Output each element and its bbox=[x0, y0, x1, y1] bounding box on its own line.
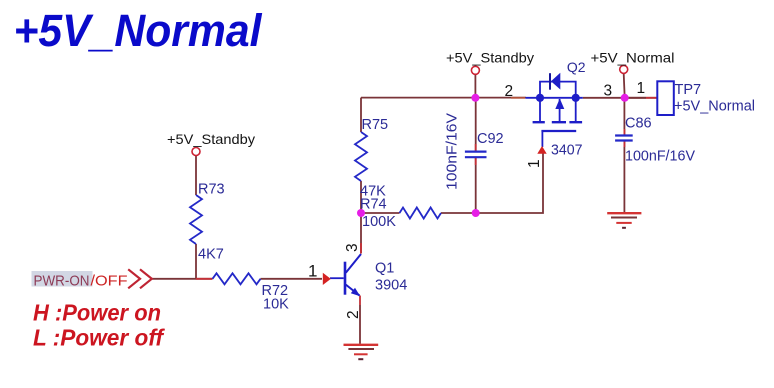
ground C86 bbox=[607, 213, 641, 228]
body diode cathode bar bbox=[549, 73, 551, 90]
svg-text:R74: R74 bbox=[360, 197, 387, 213]
channel bar left bbox=[533, 121, 545, 123]
wire: R75 bottom to node R74 bbox=[360, 181, 362, 213]
capacitor C86 bbox=[615, 116, 695, 165]
svg-text:PWR-ON: PWR-ON bbox=[34, 273, 90, 290]
base pin bbox=[330, 277, 344, 279]
body diode loop bbox=[540, 82, 576, 98]
gate lead bbox=[541, 131, 543, 147]
svg-text:+5V_Standby: +5V_Standby bbox=[167, 131, 255, 147]
capacitor C92 bbox=[444, 113, 504, 190]
svg-text:+5V_Standby: +5V_Standby bbox=[446, 50, 534, 66]
wire: C92 bottom plate to node bbox=[475, 157, 477, 213]
svg-text:3: 3 bbox=[344, 243, 361, 252]
wire: bottom net PWR-ON to R72 bbox=[152, 278, 213, 280]
power +5V_Standby left bbox=[167, 131, 255, 156]
ground Q1 bbox=[344, 345, 379, 359]
resistor R73 bbox=[190, 182, 225, 263]
pin arrow 1 (Q1 base input) bbox=[323, 273, 331, 285]
port chevron bbox=[128, 269, 152, 288]
emitter arrow head bbox=[351, 288, 360, 297]
wire: node to TP7 pin bbox=[625, 97, 658, 99]
pin stub red C86 bbox=[623, 129, 625, 147]
wire: node C92 to Q2 gate corner bbox=[476, 154, 543, 214]
wire: Q2 drain to node C86 bbox=[583, 97, 646, 99]
transistor Q2 (P-MOSFET 3407) bbox=[511, 59, 586, 168]
emitter diagonal bbox=[346, 285, 360, 296]
svg-text:R73: R73 bbox=[198, 182, 225, 198]
svg-text:2: 2 bbox=[345, 310, 362, 319]
wire: R74 right to node C92 bbox=[441, 212, 476, 214]
svg-text:R75: R75 bbox=[362, 117, 389, 133]
bulk arrow head bbox=[555, 99, 564, 110]
svg-text:Q2: Q2 bbox=[567, 59, 586, 75]
wire: +5V_Normal drop bbox=[624, 74, 625, 98]
svg-text:+5V_Normal: +5V_Normal bbox=[674, 99, 755, 115]
node dot Q2 left bbox=[536, 94, 544, 102]
svg-text:100nF/16V: 100nF/16V bbox=[625, 148, 695, 164]
svg-text:/OFF: /OFF bbox=[91, 273, 128, 290]
svg-text:C92: C92 bbox=[477, 131, 504, 147]
wire: R72 right to Q1 base arrow bbox=[261, 278, 323, 280]
wire: C86 bottom to ground bbox=[623, 141, 625, 213]
transistor Q1 (NPN 3904) bbox=[330, 243, 407, 319]
channel bar right bbox=[569, 121, 582, 123]
power +5V_Standby top bbox=[446, 50, 534, 75]
wire: Q1 collector up to node bbox=[360, 213, 362, 254]
wire: top net from R75 corner to Q2 bbox=[361, 97, 526, 99]
testpoint TP7 bbox=[657, 81, 755, 115]
svg-text:100K: 100K bbox=[362, 214, 396, 230]
power +5V_Normal top bbox=[591, 50, 675, 74]
junction node C92/R74 bbox=[472, 209, 480, 217]
junction node +5V_Standby top bbox=[471, 94, 479, 102]
svg-text:10K: 10K bbox=[263, 297, 289, 313]
pin arrow 1 (gate input) bbox=[537, 146, 546, 154]
source-drain pin line bbox=[526, 97, 583, 99]
source lead right bbox=[575, 98, 577, 121]
body diode triangle bbox=[551, 73, 560, 90]
wire: Q1 emitter down to ground bbox=[359, 305, 361, 344]
wire: node to C86 top plate bbox=[623, 98, 625, 136]
junction node R75/R74 bbox=[357, 209, 365, 217]
collector diagonal bbox=[346, 254, 361, 273]
svg-text:100nF/16V: 100nF/16V bbox=[444, 113, 461, 190]
bulk arrow line bbox=[559, 99, 561, 121]
svg-text:H :Power on: H :Power on bbox=[33, 300, 161, 326]
pin stub red TP7 bbox=[646, 97, 657, 99]
wire: node to C92 top plate bbox=[475, 98, 477, 152]
svg-text:+5V_Normal: +5V_Normal bbox=[14, 5, 263, 56]
pin stub red Q1 collector bbox=[360, 243, 362, 254]
resistor R74 bbox=[360, 197, 441, 231]
svg-text:3407: 3407 bbox=[551, 143, 583, 159]
channel bar middle bbox=[552, 121, 566, 123]
wire: R73 bottom to bottom net bbox=[195, 244, 197, 279]
pin stub red C92 bbox=[475, 144, 477, 165]
svg-text:4K7: 4K7 bbox=[198, 247, 224, 263]
port PWR-ON/OFF highlight bbox=[32, 271, 93, 287]
node dot Q2 right bbox=[572, 94, 580, 102]
svg-text:+5V_Normal: +5V_Normal bbox=[591, 50, 675, 66]
resistor R72 bbox=[213, 273, 290, 312]
junction node +5V_Normal/C86 bbox=[621, 94, 629, 102]
svg-text:TP7: TP7 bbox=[675, 82, 702, 98]
svg-text:C86: C86 bbox=[625, 116, 652, 132]
pin blend segment bbox=[511, 97, 525, 99]
gate plate bbox=[541, 130, 576, 132]
svg-text:L :Power off: L :Power off bbox=[33, 325, 165, 351]
pin stub red R72 left bbox=[196, 278, 213, 280]
wire: +5V_Standby left drop to R73 bbox=[195, 156, 197, 196]
svg-text:1: 1 bbox=[308, 262, 317, 281]
resistor R75 bbox=[355, 117, 388, 200]
pin stub red Q1 emitter bbox=[359, 296, 361, 306]
svg-text:3904: 3904 bbox=[375, 278, 407, 294]
svg-text:1: 1 bbox=[637, 80, 646, 97]
drain lead left bbox=[539, 98, 541, 121]
wire: +5V_Standby top drop bbox=[474, 75, 476, 98]
base bar bbox=[344, 262, 347, 295]
svg-text:1: 1 bbox=[526, 159, 543, 168]
wire: node to R74 left bbox=[361, 212, 400, 214]
wire: top corner down to R75 bbox=[360, 98, 362, 132]
svg-text:Q1: Q1 bbox=[375, 261, 394, 277]
svg-text:3: 3 bbox=[604, 83, 613, 100]
